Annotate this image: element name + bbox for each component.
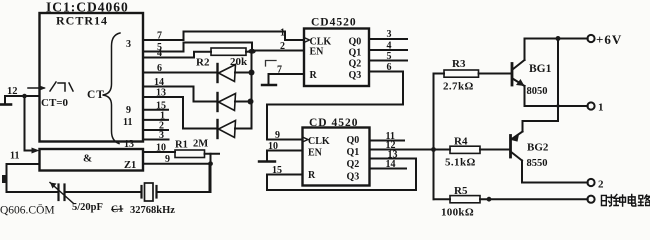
resistor R5 <box>434 198 451 200</box>
U2 output Q1 stub <box>369 49 407 51</box>
ground at pin 12 <box>4 96 6 104</box>
svg-text:2: 2 <box>280 41 285 52</box>
svg-text:14: 14 <box>386 159 396 170</box>
scan mark near U2 R <box>266 61 277 67</box>
svg-text:Q2: Q2 <box>347 159 360 170</box>
svg-text:2M: 2M <box>193 139 208 150</box>
svg-text:Q3: Q3 <box>349 70 362 81</box>
wire U3 R input <box>267 174 303 176</box>
svg-text:BG2: BG2 <box>527 142 549 154</box>
svg-text:5: 5 <box>387 51 392 62</box>
svg-text:Q0: Q0 <box>347 135 360 146</box>
svg-text:R1: R1 <box>175 140 188 151</box>
svg-text:5/20pF: 5/20pF <box>72 202 103 213</box>
resistor R3 <box>434 73 445 75</box>
transistor Q2 BG2 8550 <box>509 136 512 158</box>
wire BG2 emitter to +6V node <box>523 39 559 132</box>
svg-text:9: 9 <box>126 105 131 116</box>
svg-text:2.7kΩ: 2.7kΩ <box>443 81 474 93</box>
wire U3 EN input <box>267 150 303 152</box>
svg-text:Q606.CŌM: Q606.CŌM <box>0 204 55 217</box>
路 <box>638 195 650 206</box>
wire pin 11 <box>7 164 59 192</box>
wire BG1 collector to +6V rail <box>525 39 588 61</box>
svg-text:12: 12 <box>7 86 18 97</box>
svg-text:8050: 8050 <box>527 86 548 97</box>
svg-text:9: 9 <box>165 154 170 165</box>
svg-text:R: R <box>310 70 318 81</box>
svg-text:CLK: CLK <box>308 136 330 147</box>
U3 output Q0 stub <box>370 140 405 142</box>
diode D1 <box>216 64 218 82</box>
variable capacitor C1 5/20pF <box>57 185 59 201</box>
node D2 cathode bus <box>248 99 254 105</box>
svg-text:2: 2 <box>598 179 604 191</box>
svg-text:+6V: +6V <box>596 32 622 47</box>
svg-text:100kΩ: 100kΩ <box>441 207 474 219</box>
scan blob left edge <box>2 175 6 183</box>
svg-text:RCTR14: RCTR14 <box>56 14 108 28</box>
node D1 cathode bus <box>249 70 255 76</box>
svg-text:3: 3 <box>126 39 131 50</box>
wire pin 10 to R1 <box>143 151 175 153</box>
svg-text:Q1: Q1 <box>349 48 362 59</box>
node bus R4 <box>431 147 436 152</box>
diode D2 <box>216 93 218 111</box>
wire U2 R input with ground <box>269 73 305 75</box>
wire pin12 node down to oscillator arrow <box>25 96 34 151</box>
IC U1 CD4060 main box <box>40 13 144 142</box>
svg-text:Q0: Q0 <box>349 37 362 48</box>
wire crystal to node <box>157 164 210 192</box>
wire cap to crystal <box>65 191 142 193</box>
svg-text:EN: EN <box>310 47 325 58</box>
wire pin 12 <box>5 95 40 97</box>
terminal 2 <box>587 179 594 186</box>
svg-text:R3: R3 <box>452 58 466 70</box>
U3 output Q2 wire to reset loop <box>267 159 416 191</box>
svg-text:7: 7 <box>277 65 282 76</box>
stub pin 1 <box>143 119 168 121</box>
resistor R1 <box>175 150 205 158</box>
svg-text:CT=0: CT=0 <box>41 97 69 109</box>
svg-text:R4: R4 <box>454 136 468 148</box>
svg-text:3: 3 <box>387 29 392 40</box>
node pin9/R1/crystal <box>208 161 213 166</box>
svg-text:11: 11 <box>123 117 132 128</box>
svg-text:7: 7 <box>157 31 162 42</box>
svg-text:Q3: Q3 <box>347 172 360 183</box>
U2 output Q3 cascade wire <box>267 72 403 140</box>
svg-text:BG1: BG1 <box>529 63 552 75</box>
wire R1 output down to crystal node <box>210 154 212 192</box>
terminal +6V <box>587 35 594 42</box>
diode summing bus wire <box>251 51 253 128</box>
电 <box>628 194 635 206</box>
svg-text:11: 11 <box>10 151 19 162</box>
transistor Q1 BG1 8050 <box>511 64 514 86</box>
ground at U2 R <box>268 74 270 85</box>
U3 output Q1 wire to R4 <box>370 149 451 151</box>
wire pin 14 to diode D2 <box>143 87 218 102</box>
svg-text:1: 1 <box>598 102 604 114</box>
node R5 output <box>487 197 492 202</box>
stub pin 3 <box>143 139 169 141</box>
svg-text:6: 6 <box>387 62 392 73</box>
ground at U3 EN <box>266 151 268 162</box>
junction nub at crossing <box>556 104 559 107</box>
svg-text:Q1: Q1 <box>347 147 360 158</box>
svg-text:9: 9 <box>275 130 280 141</box>
svg-text:EN: EN <box>308 148 323 159</box>
wire pin 9 <box>143 163 211 165</box>
svg-text:CD 4520: CD 4520 <box>309 117 359 129</box>
U2 CLK wedge <box>304 38 310 43</box>
时 <box>601 195 613 206</box>
wire pin 6 to diode D1 <box>143 72 218 74</box>
reset arrow into pin 12 <box>28 87 44 89</box>
svg-text:4: 4 <box>387 41 392 52</box>
svg-text:R: R <box>308 170 316 181</box>
svg-text:3: 3 <box>159 130 164 141</box>
node R2 output <box>248 49 256 54</box>
svg-text:10: 10 <box>268 141 278 152</box>
svg-text:Q2: Q2 <box>349 59 362 70</box>
U2 output Q0 stub <box>369 38 407 40</box>
svg-text:13: 13 <box>156 88 166 99</box>
U3 CLK wedge <box>303 137 309 142</box>
svg-text:5.1kΩ: 5.1kΩ <box>445 157 476 169</box>
svg-text:14: 14 <box>154 77 164 88</box>
base resistor bus <box>433 74 435 200</box>
svg-text:10: 10 <box>156 143 166 154</box>
wire pin 7 to CLK of U2 <box>143 32 304 41</box>
wire pin 5 <box>143 43 252 52</box>
resistor R2 <box>211 48 246 55</box>
钟 <box>614 194 626 206</box>
wire BG2 collector to terminal 2 <box>522 161 588 183</box>
svg-text:C1: C1 <box>111 204 124 216</box>
stub pin 15 <box>143 109 168 111</box>
diode D3 <box>216 120 218 138</box>
wire node to EN of U2 <box>252 50 304 52</box>
svg-text:CT: CT <box>87 89 105 101</box>
U3 output Q3 stub <box>370 168 407 170</box>
crystal B1 32768kHz <box>140 186 142 198</box>
svg-text:1: 1 <box>280 28 285 39</box>
IC U3 CD4520 (lower) box <box>303 128 370 186</box>
svg-text:4: 4 <box>157 48 162 59</box>
svg-text:R2: R2 <box>196 57 210 69</box>
IC U2 CD4520 (upper) box <box>304 29 369 87</box>
U2 output Q2 stub <box>369 60 407 62</box>
svg-text:6: 6 <box>157 63 162 74</box>
svg-text:8550: 8550 <box>527 158 548 169</box>
svg-text:CD4520: CD4520 <box>311 17 357 29</box>
wire BG1 emitter to terminal 1 <box>525 86 588 106</box>
terminal clock circuit <box>587 196 594 203</box>
wire pin 13 to diode D3 <box>143 97 218 129</box>
CT output brace <box>103 33 121 144</box>
svg-text:R5: R5 <box>454 185 468 197</box>
resistor R4 <box>450 146 480 153</box>
label 时钟电路 (clock circuit) <box>601 194 650 206</box>
svg-text:32768kHz: 32768kHz <box>130 205 175 216</box>
node +6V rail <box>556 36 561 41</box>
svg-text:15: 15 <box>272 165 282 176</box>
wire pin 4 to R2 <box>143 52 211 58</box>
oscillator section box Z1 <box>40 149 144 171</box>
terminal 1 <box>587 102 594 109</box>
svg-text:IC1:CD4060: IC1:CD4060 <box>46 0 129 15</box>
svg-text:&: & <box>83 153 92 165</box>
svg-text:Z1: Z1 <box>124 160 136 171</box>
stub pin 2 <box>143 129 168 131</box>
node at pin12 wire <box>22 94 27 99</box>
